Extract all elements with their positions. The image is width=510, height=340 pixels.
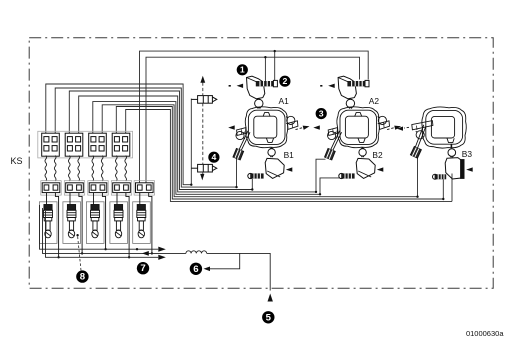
tap wire to A1 connector bar	[274, 51, 276, 81]
B solenoid body	[265, 158, 284, 178]
coil lead wire 6	[101, 156, 103, 182]
inlet arrow at solenoid	[320, 84, 335, 88]
connector block X3 (4-pin)	[89, 133, 107, 156]
solenoid connector bar	[256, 80, 278, 86]
teardrop link to B solenoid	[359, 148, 366, 158]
wire stub to A1 lever solenoid	[236, 159, 238, 188]
callout 6	[190, 263, 202, 275]
inlet arrow at solenoid	[229, 84, 244, 88]
camshaft adjuster ring B3	[422, 107, 466, 148]
connector block X4 (4-pin)	[112, 133, 130, 156]
plug connector 3 (2-pin)	[88, 181, 108, 195]
coil lead wire 3	[69, 156, 71, 182]
B solenoid body	[356, 158, 375, 178]
callout 5	[262, 311, 274, 323]
junction on supply rail below plug 3	[104, 248, 106, 250]
wire stub to A2 lever solenoid	[316, 159, 326, 192]
right vane fork and pin	[378, 116, 390, 129]
svg-text:2: 2	[282, 76, 287, 86]
wire from plug connector 5 to camshaft solenoids A1/A2 (lower)	[146, 57, 360, 182]
callout 4	[208, 152, 219, 163]
B3 connector bar	[435, 174, 447, 179]
callout 7	[137, 262, 149, 274]
tap wire to A1 connector bar (second)	[264, 57, 266, 81]
coil lead wire 7	[116, 156, 118, 182]
inlet arrow left of ring	[228, 125, 235, 129]
callout 1	[237, 64, 248, 75]
inlet arrow left of ring	[313, 125, 320, 129]
B3 lever with solenoid box	[410, 125, 426, 158]
supply rail (bottom) with flow arrow	[46, 211, 159, 257]
svg-text:B3: B3	[462, 149, 473, 159]
arrow into B3 solenoid	[466, 167, 473, 171]
left vane fork and pin	[328, 128, 339, 140]
adjuster drop link (top teardrop)	[346, 99, 354, 109]
svg-text:01000630a: 01000630a	[466, 329, 504, 338]
outlet dashed arrow left of B3	[404, 126, 409, 129]
svg-text:7: 7	[140, 263, 145, 274]
junction on supply rail below plug 2	[81, 252, 83, 254]
wire from plug connector 5 to camshaft solenoids A1/A2 (upper)	[140, 51, 369, 182]
wire stub to B3 lever solenoid	[417, 158, 419, 197]
arrow into B solenoid	[377, 167, 384, 171]
camshaft adjuster ring	[337, 107, 379, 148]
B solenoid connector bar	[248, 173, 264, 178]
coil lead wire 1	[45, 156, 47, 182]
supply rail (top) with flow arrow	[40, 205, 159, 249]
leader for callout 8	[78, 236, 81, 270]
camshaft solenoid (top, A)	[338, 76, 356, 99]
wire harness: eight leads from KS connector blocks to solenoid rails	[46, 84, 192, 185]
B3 drop link	[448, 144, 456, 158]
callout 2	[279, 76, 290, 87]
actuation dashed line with arrows	[202, 83, 204, 175]
svg-text:KS: KS	[11, 156, 23, 166]
teardrop link to B solenoid	[268, 148, 275, 158]
arrow into B solenoid	[286, 167, 293, 171]
plug connector 4 (2-pin)	[111, 181, 131, 195]
wire stub to B2 solenoid connector	[320, 178, 340, 194]
spark plug 2 with boot	[63, 193, 82, 254]
outlet dashed arrow right	[296, 124, 311, 130]
wire stub to B3 solenoid connector	[442, 179, 444, 199]
callout 3	[316, 108, 327, 119]
svg-text:5: 5	[266, 312, 272, 323]
hydraulic valve symbol (upper)	[191, 96, 217, 104]
KS control-unit boundary frame (dash-dot)	[29, 38, 493, 288]
solenoid connector bar	[347, 80, 369, 86]
locking lever with solenoid box	[325, 131, 342, 160]
spark plug 1 with boot	[39, 193, 58, 258]
leader for callout 6	[206, 253, 240, 268]
plug connector 5 (2-pin)	[134, 181, 154, 195]
connector block X1 (4-pin)	[42, 133, 60, 156]
callout 8	[76, 270, 88, 282]
B3 fork rod and pin	[412, 121, 433, 139]
coil lead wire 4	[78, 156, 80, 182]
locking lever with solenoid box	[233, 131, 250, 160]
junction on supply rail below plug 1	[57, 256, 59, 258]
right vane fork and pin	[286, 116, 298, 129]
svg-text:B2: B2	[372, 150, 383, 160]
hydraulic valve symbol (lower)	[191, 164, 217, 172]
arrow into node 5	[268, 294, 273, 302]
wire rail end turning up near B3	[451, 174, 453, 202]
camshaft adjuster ring	[245, 107, 287, 148]
plug connector 1 (2-pin)	[41, 181, 61, 195]
coil lead wire 2	[54, 156, 56, 182]
junction on supply rail below plug 4	[128, 256, 130, 258]
connector block X2 (4-pin)	[65, 133, 83, 156]
svg-text:A1: A1	[279, 96, 290, 106]
svg-text:B1: B1	[284, 150, 295, 160]
svg-text:A2: A2	[369, 96, 380, 106]
svg-text:1: 1	[240, 65, 245, 75]
coil lead wire 5	[92, 156, 94, 182]
spark plug 3 with boot	[86, 193, 105, 250]
B solenoid connector bar	[339, 173, 355, 178]
svg-text:3: 3	[319, 108, 324, 118]
camshaft solenoid (top, A)	[247, 76, 265, 99]
outlet dashed arrow right	[387, 124, 402, 130]
adjuster drop link (top teardrop)	[255, 99, 263, 109]
svg-text:6: 6	[193, 264, 198, 275]
junction on supply rail below plug 5	[151, 252, 153, 254]
coil lead wire 8	[125, 156, 127, 182]
wire stub to B1 solenoid connector	[251, 179, 253, 190]
B3 solenoid body with end plate	[445, 158, 464, 179]
main supply line through inline filter to terminal 5	[43, 208, 186, 253]
wire stub to hydraulic valve pair	[190, 99, 192, 185]
spark plug 5 with boot	[133, 193, 152, 254]
plug connector 2 (2-pin)	[64, 181, 84, 195]
enclosure around KS connector blocks	[38, 131, 133, 158]
left vane fork and pin	[236, 128, 247, 140]
svg-text:4: 4	[211, 152, 216, 162]
spark plug 4 with boot	[110, 193, 129, 258]
svg-text:8: 8	[80, 272, 86, 283]
